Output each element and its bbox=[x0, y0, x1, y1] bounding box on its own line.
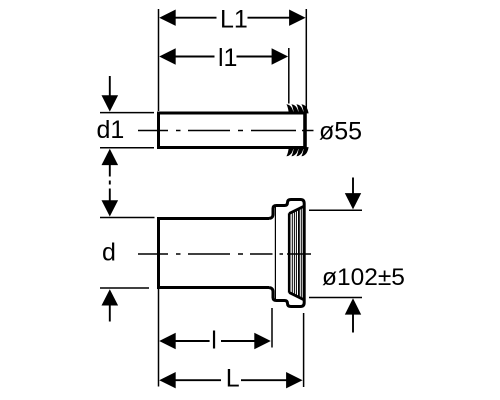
svg-text:l1: l1 bbox=[218, 44, 237, 72]
l/L extension line left bbox=[158, 289, 160, 387]
l arrowhead left bbox=[159, 333, 176, 349]
L arrowhead left bbox=[159, 372, 176, 388]
L extension line right bbox=[303, 313, 305, 387]
d1 arrow above bbox=[109, 76, 111, 97]
serration teeth bottom bbox=[286, 147, 308, 156]
centerline of socket bbox=[138, 253, 311, 255]
centerline of spigot bbox=[138, 130, 314, 132]
ø102 extension line top bbox=[309, 209, 362, 211]
d extension line top handled above; d extension line bottom bbox=[100, 287, 149, 289]
d arrow below bbox=[102, 289, 119, 305]
L1 dimension line bbox=[172, 17, 217, 19]
socket collar outline bbox=[269, 200, 304, 307]
svg-text:ø102±5: ø102±5 bbox=[322, 264, 405, 291]
l1 arrowhead left bbox=[159, 48, 176, 64]
L dimension line bbox=[172, 379, 221, 381]
ø102 arrow above bbox=[352, 178, 354, 197]
rim cone hatch lines bbox=[289, 208, 301, 299]
d1 extension line top bbox=[100, 112, 154, 114]
d1 arrow below + d arrow above (shared) bbox=[102, 149, 119, 165]
svg-text:L: L bbox=[226, 365, 240, 393]
svg-text:L1: L1 bbox=[220, 5, 248, 33]
l1 arrowhead right bbox=[272, 48, 289, 64]
svg-text:l: l bbox=[211, 327, 217, 355]
svg-text:d1: d1 bbox=[97, 116, 125, 144]
l1 dimension line bbox=[172, 56, 215, 58]
L1 arrowhead right bbox=[289, 10, 306, 26]
svg-text:ø55: ø55 bbox=[319, 118, 362, 146]
serration teeth top bbox=[286, 104, 308, 113]
ø102 arrow below bbox=[345, 298, 361, 314]
l dimension line bbox=[172, 340, 210, 342]
L1 arrowhead left bbox=[159, 10, 176, 26]
spigot tube body outline bbox=[159, 113, 306, 148]
collar inner edge line bbox=[274, 207, 276, 299]
d extension top line bbox=[100, 217, 155, 219]
svg-text:d: d bbox=[102, 238, 116, 266]
L arrowhead right bbox=[286, 372, 303, 388]
l arrowhead right bbox=[254, 333, 270, 349]
spigot tube right end face (thick) bbox=[303, 112, 307, 149]
l extension line right bbox=[271, 308, 273, 348]
L1 extension line left bbox=[158, 9, 160, 111]
l1 extension line right bbox=[288, 48, 290, 104]
rim inner diagonal top bbox=[289, 206, 304, 214]
L1 extension line right bbox=[305, 9, 307, 110]
socket body outline bbox=[159, 219, 270, 288]
ø102 extension line bottom bbox=[309, 297, 362, 299]
rim inner diagonal bottom bbox=[289, 293, 304, 301]
d1 extension line bottom bbox=[100, 147, 154, 149]
